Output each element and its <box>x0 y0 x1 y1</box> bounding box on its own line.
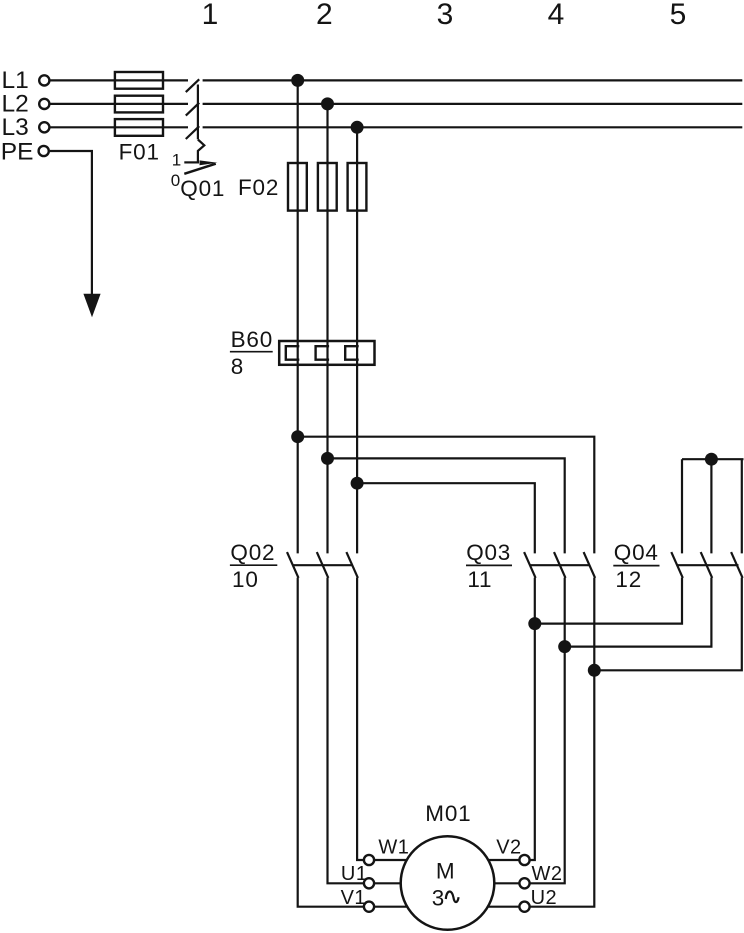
contactor Q02 blade 1 <box>287 552 299 578</box>
switch Q01 blade L3 <box>186 126 199 139</box>
svg-text:5: 5 <box>670 0 687 31</box>
wire Q03 pole3 to U2 <box>530 578 594 907</box>
motor M01 circle <box>401 836 495 930</box>
node star bridge <box>705 453 718 466</box>
wire branch phase3 to Q03 pole1 <box>357 483 535 553</box>
wire Q02 pole2 to U1 <box>328 578 364 884</box>
PE ground arrow <box>83 294 100 318</box>
wire V1 stub <box>375 906 408 908</box>
node L3 tap <box>351 121 364 134</box>
label Q03 fraction line <box>466 564 512 566</box>
svg-text:8: 8 <box>231 354 244 379</box>
switch Q01 position-1 tick <box>184 161 199 163</box>
switch Q01 linkage <box>197 85 199 140</box>
switch Q01 actuator arrowhead <box>200 160 218 165</box>
terminal U2 <box>519 902 529 912</box>
svg-text:12: 12 <box>615 567 642 592</box>
svg-text:M01: M01 <box>425 801 471 826</box>
wire phase1 vertical <box>297 80 299 553</box>
wire phase2 vertical <box>326 104 328 554</box>
svg-text:11: 11 <box>467 567 492 592</box>
terminal W1 <box>364 855 374 865</box>
wire branch phase2 to Q03 pole2 <box>328 458 565 553</box>
svg-text:Q01: Q01 <box>180 176 225 201</box>
terminal V2 <box>519 855 529 865</box>
wire L3 rail right <box>203 126 743 128</box>
overload relay B60 element 1 <box>286 346 300 360</box>
contactor Q04 blade 3 <box>731 552 743 578</box>
svg-text:L3: L3 <box>2 114 29 141</box>
terminal V1 <box>364 902 374 912</box>
contactor Q02 blade 3 <box>346 552 358 578</box>
fuse F02 pole 1 <box>288 163 307 211</box>
fuse F02 pole 2 <box>318 163 337 211</box>
wire branch phase1 to Q03 pole3 <box>298 437 595 554</box>
svg-text:V1: V1 <box>341 887 366 909</box>
fuse F01 pole L3 <box>115 119 163 136</box>
terminal U1 <box>364 878 374 888</box>
wire Q03 pole2 to W2 <box>530 578 564 884</box>
wire L1 rail left <box>50 79 188 81</box>
svg-text:4: 4 <box>548 0 565 31</box>
wire L3 rail left <box>50 126 188 128</box>
node W2 star junction <box>558 640 571 653</box>
svg-text:W2: W2 <box>532 863 563 885</box>
svg-text:1: 1 <box>172 150 181 169</box>
fuse F02 pole 3 <box>348 163 367 211</box>
contactor Q02 linkage <box>293 564 352 566</box>
wire L2 rail right <box>203 103 743 105</box>
node U2 star junction <box>588 664 601 677</box>
svg-text:Q04: Q04 <box>614 540 659 565</box>
svg-text:PE: PE <box>1 138 34 165</box>
node L2 tap <box>321 97 334 110</box>
svg-text:10: 10 <box>232 567 259 592</box>
svg-text:M: M <box>436 859 456 884</box>
svg-text:3: 3 <box>437 0 454 31</box>
node V2 star junction <box>528 617 541 630</box>
switch Q01 actuator lever <box>184 164 216 174</box>
wire Q04 drop 1 <box>681 459 683 553</box>
wire phase3 vertical <box>356 127 358 553</box>
wire Q04 pole2 return <box>565 578 712 647</box>
wire U1 stub <box>375 882 402 884</box>
motor sine wave symbol <box>446 892 459 903</box>
wire L2 rail left <box>50 103 188 105</box>
svg-text:F01: F01 <box>119 139 160 164</box>
wire Q03 pole1 to V2 <box>530 578 535 860</box>
svg-text:2: 2 <box>316 0 333 31</box>
wire U2 stub <box>488 906 519 908</box>
wire V2 stub <box>488 859 519 861</box>
wire Q04 star bridge <box>682 458 744 460</box>
overload relay B60 element 2 <box>316 346 330 360</box>
svg-text:0: 0 <box>171 171 180 190</box>
label Q04 fraction line <box>613 565 659 567</box>
wire Q04 pole3 return <box>594 578 742 671</box>
wire Q02 pole3 to W1 <box>357 578 363 860</box>
switch Q01 spring <box>198 140 204 163</box>
svg-text:B60: B60 <box>231 327 273 352</box>
contactor Q04 blade 1 <box>671 552 683 578</box>
contactor Q04 linkage <box>677 564 739 566</box>
fuse F01 pole L1 <box>115 72 163 89</box>
contactor Q02 blade 2 <box>317 552 329 578</box>
wire PE <box>50 151 92 295</box>
svg-text:1: 1 <box>202 0 219 31</box>
wire W2 stub <box>494 882 519 884</box>
wire W1 stub <box>375 859 408 861</box>
svg-text:Q03: Q03 <box>466 540 511 565</box>
overload relay B60 box <box>279 341 374 365</box>
contactor Q03 blade 1 <box>524 552 536 578</box>
label B60 fraction line <box>230 351 273 353</box>
fuse F01 pole L2 <box>115 96 163 113</box>
wire Q04 drop 2 <box>710 459 712 553</box>
svg-text:U1: U1 <box>341 863 368 885</box>
wire L1 rail right <box>203 79 743 81</box>
node phase1 branch <box>291 430 304 443</box>
switch Q01 blade L1 <box>186 79 199 92</box>
terminal W2 <box>519 878 529 888</box>
node phase3 branch <box>351 477 364 490</box>
svg-text:3: 3 <box>432 886 445 911</box>
svg-text:V2: V2 <box>496 837 521 859</box>
wire Q02 pole1 to V1 <box>298 578 364 907</box>
wire Q04 pole1 return <box>535 578 682 624</box>
node phase2 branch <box>321 452 334 465</box>
contactor Q03 blade 3 <box>584 552 596 578</box>
contactor Q03 blade 2 <box>554 552 566 578</box>
terminal L3 <box>39 122 49 132</box>
terminal L2 <box>39 99 49 109</box>
terminal PE <box>39 146 49 156</box>
label Q02 fraction line <box>230 564 277 566</box>
switch Q01 blade L2 <box>186 103 199 116</box>
svg-text:W1: W1 <box>378 836 409 858</box>
contactor Q03 linkage <box>530 564 589 566</box>
svg-text:U2: U2 <box>531 887 558 909</box>
terminal L1 <box>39 75 49 85</box>
overload relay B60 element 3 <box>345 346 359 360</box>
contactor Q04 blade 2 <box>701 552 713 578</box>
svg-text:Q02: Q02 <box>230 540 275 565</box>
svg-text:F02: F02 <box>238 175 279 200</box>
wire Q04 drop 3 <box>741 459 743 553</box>
node L1 tap <box>291 74 304 87</box>
